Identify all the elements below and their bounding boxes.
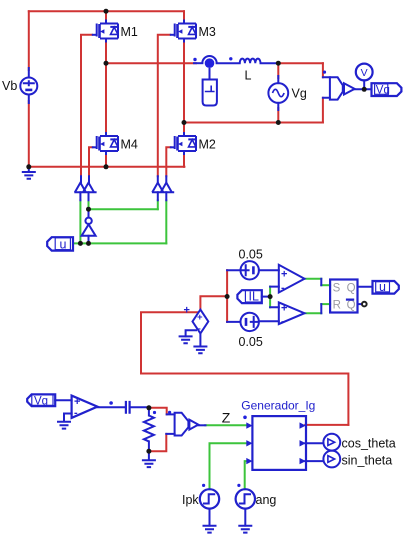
svg-text:+: + xyxy=(74,396,80,408)
wire S input stub xyxy=(321,284,330,286)
mosfet M1 xyxy=(92,20,118,43)
wire u to gating block 1 xyxy=(79,200,81,243)
node Vg bottom / rail xyxy=(276,120,281,125)
gating block G1 (M1 gate) xyxy=(75,183,86,193)
output label u xyxy=(373,281,399,294)
wire Generador output 1 stub xyxy=(305,424,348,426)
node NOT output xyxy=(86,207,91,212)
mosfet M2 xyxy=(170,132,196,155)
voltage sensor (output) xyxy=(330,77,343,99)
wire Vg source bottom lead xyxy=(277,108,279,123)
wire derivator amp output xyxy=(198,424,205,426)
svg-text:Vg: Vg xyxy=(376,85,390,97)
ground below ang xyxy=(238,526,252,533)
node A xyxy=(104,61,109,66)
wire derivator top node to sensor2 plus xyxy=(149,408,167,415)
inductor L xyxy=(240,59,261,64)
ac source Vg xyxy=(268,83,288,103)
wire u to gating block 4 riser xyxy=(165,200,167,243)
wire op-amp minus to ground xyxy=(64,414,72,422)
wire M3 gate line xyxy=(158,35,170,177)
wire node A to current sensor xyxy=(106,62,196,64)
gating block G2 (M4 gate) xyxy=(83,183,94,193)
wire comparator middle input stubs xyxy=(270,287,279,308)
input label u xyxy=(47,237,73,250)
svg-text:R: R xyxy=(333,300,341,312)
wire comparator1 output xyxy=(305,278,322,280)
wire NOT output to gating block 3 riser xyxy=(157,200,159,209)
svg-text:Vg: Vg xyxy=(34,395,48,407)
svg-text:-: - xyxy=(74,407,78,419)
wire ang to Generador input 3 xyxy=(245,461,248,489)
step source ang xyxy=(236,489,255,508)
subcircuit Generador_Ig box xyxy=(252,416,306,470)
svg-text:Q: Q xyxy=(347,283,356,295)
wire NOT gate input stub xyxy=(88,236,90,244)
svg-text:M3: M3 xyxy=(199,25,216,39)
svg-text:Vg: Vg xyxy=(292,87,307,101)
svg-text:Vb: Vb xyxy=(2,79,17,93)
node B xyxy=(182,120,187,125)
wire M2 source to bottom rail xyxy=(183,154,185,167)
svg-text:cos_theta: cos_theta xyxy=(342,436,396,450)
wire M1 drain xyxy=(105,11,107,22)
wire M2 gate line xyxy=(166,147,170,176)
mosfet M4 xyxy=(92,132,118,155)
wire M4 gate line xyxy=(89,147,93,176)
amp triangle after voltage sensor xyxy=(344,83,355,94)
current sensor (arc + dot + body) xyxy=(202,56,217,105)
wire output loop bottom right riser xyxy=(322,98,324,123)
resistor xyxy=(144,416,154,442)
wire Vg source stubs xyxy=(277,76,279,110)
wire sensor2 input prongs xyxy=(166,414,174,434)
wire gating stubs below xyxy=(80,192,166,200)
svg-text:+: + xyxy=(281,303,287,315)
probe cos_theta xyxy=(323,434,340,451)
wire resistor ground stem xyxy=(148,451,150,460)
voltmeter V xyxy=(356,64,373,81)
wire resistor bottom node to sensor2 minus xyxy=(149,434,166,451)
wire op-amp output to capacitor xyxy=(97,406,125,408)
wire sensor1 amp output xyxy=(355,88,372,90)
wire diamond minus input to ground xyxy=(186,330,196,336)
wire resistor bottom lead xyxy=(148,441,150,451)
dc source 0.05 upper xyxy=(241,261,259,279)
wire M4 source to bottom rail xyxy=(105,154,107,167)
svg-text:M4: M4 xyxy=(121,138,138,152)
wire Ipk ground stem xyxy=(209,509,211,526)
wire u label line xyxy=(73,242,166,244)
wire inductor to node xyxy=(261,62,278,64)
wire source2 leads xyxy=(227,320,279,323)
wire hysteresis source chain vertical xyxy=(226,270,228,322)
input label Vg (bottom left) xyxy=(27,394,55,406)
wire comparator output elbows to flipflop xyxy=(320,279,322,314)
svg-text:+: + xyxy=(281,269,287,281)
SR flip-flop xyxy=(330,280,357,313)
wire flipflop Qbar stub xyxy=(358,303,362,305)
svg-text:u: u xyxy=(379,280,386,294)
svg-text:0.05: 0.05 xyxy=(239,335,263,349)
svg-text:M1: M1 xyxy=(121,25,138,39)
wire resistor top lead xyxy=(148,408,150,416)
wire current sensor to inductor xyxy=(217,62,240,64)
svg-text:sin_theta: sin_theta xyxy=(342,454,393,468)
wire sensor top drop xyxy=(322,63,324,77)
wire Generador outputs to probes xyxy=(305,443,323,461)
wire Vg input label to op-amp xyxy=(55,399,71,401)
node hysteresis center xyxy=(225,294,230,299)
svg-text:Z: Z xyxy=(222,410,231,426)
wire NOT output cross to right pair xyxy=(89,208,158,210)
ground at diamond bottom xyxy=(193,347,207,354)
wire voltmeter stem xyxy=(363,80,365,89)
amp triangle after sensor 2 xyxy=(189,420,198,430)
node inductor / Vg top xyxy=(276,61,281,66)
wire M3 drain xyxy=(183,11,185,22)
wire inductor output to sensor top xyxy=(278,62,323,64)
wire Vb top stub xyxy=(28,68,30,78)
svg-text:V: V xyxy=(361,67,368,79)
ground below op-amp xyxy=(57,422,71,429)
wire Vb ground stem xyxy=(28,167,30,172)
output label Vg xyxy=(372,83,402,96)
Qbar open terminal xyxy=(362,302,367,307)
wire diamond comparator top to hysteresis node xyxy=(200,296,227,309)
wire NOT gate output stub xyxy=(88,209,90,217)
svg-text:L: L xyxy=(245,69,252,83)
svg-text:Q: Q xyxy=(347,300,356,312)
svg-text:u: u xyxy=(60,237,67,251)
svg-text:Generador_Ig: Generador_Ig xyxy=(241,399,315,413)
gating block G3 (M3 gate) xyxy=(152,183,163,193)
svg-text:M2: M2 xyxy=(199,138,216,152)
NOT gate xyxy=(82,218,96,236)
svg-text:-: - xyxy=(198,324,201,335)
input arrows of Generador_Ig xyxy=(246,422,305,464)
wire gating stubs above xyxy=(81,176,166,182)
mosfet M3 xyxy=(170,20,196,43)
wire comparator middle inputs vertical xyxy=(269,287,271,308)
node derivator top xyxy=(146,405,151,410)
node top rail / M1 drain xyxy=(104,9,109,14)
diamond comparator xyxy=(193,310,209,334)
ground below Ipk xyxy=(203,526,217,533)
ground below Vb xyxy=(22,172,36,179)
node resistor bottom xyxy=(146,449,151,454)
wire node B to output loop bottom xyxy=(184,122,323,124)
wire right leg M3 source to M2 drain (node B) xyxy=(183,41,185,134)
wire R input stub xyxy=(321,303,330,305)
gating block G4 (M2 gate) xyxy=(161,183,172,193)
dc source 0.05 lower xyxy=(241,313,259,331)
svg-text:IL: IL xyxy=(249,290,259,304)
wire Vb bottom stub xyxy=(28,95,30,104)
wire flipflop Q to u label xyxy=(358,286,373,288)
wire NOT output to gating block 2 xyxy=(88,200,90,209)
wire derivator output to Generador input 1 xyxy=(205,424,248,426)
wire comparator2 output xyxy=(305,312,322,314)
wire left leg M1 source to M4 drain (node A) xyxy=(105,41,107,134)
probe sin_theta xyxy=(323,451,340,468)
wire M1 gate line xyxy=(81,35,92,177)
wire node A into current sensor xyxy=(194,62,202,64)
node u to NOT input xyxy=(86,241,91,246)
wire bottom rail xyxy=(29,166,185,168)
wire source1 leads xyxy=(227,269,279,271)
svg-text:ang: ang xyxy=(256,493,277,507)
wire diamond bottom to ground xyxy=(199,333,201,346)
svg-text:-: - xyxy=(281,282,285,294)
node voltmeter tap xyxy=(362,87,367,92)
svg-text:0.05: 0.05 xyxy=(239,247,263,261)
wire Vb positive lead up xyxy=(28,11,30,70)
gating block base bars xyxy=(74,191,174,193)
svg-text:-: - xyxy=(281,316,285,328)
wire Vb negative lead down to bottom rail xyxy=(28,101,30,167)
comparator U1 (upper) xyxy=(279,265,305,293)
step source Ipk xyxy=(200,489,219,508)
node u to G1 xyxy=(78,241,83,246)
node M4 source / bottom rail xyxy=(104,164,109,169)
node Vb- / bottom rail xyxy=(26,164,31,169)
wire IL label lead xyxy=(262,296,270,298)
svg-text:+: + xyxy=(197,312,203,323)
node IL tap xyxy=(268,294,273,299)
wire Ipk to Generador input 2 xyxy=(210,443,249,489)
op-amp xyxy=(72,396,98,418)
input label IL xyxy=(237,290,261,303)
wire capacitor to node xyxy=(131,406,149,408)
voltage sensor 2 (derivator) xyxy=(175,413,189,436)
svg-text:+: + xyxy=(184,305,190,317)
svg-text:Ipk: Ipk xyxy=(182,493,199,507)
comparator U2 (lower) xyxy=(279,302,305,324)
wire Vg source top lead xyxy=(277,63,279,78)
wire Ig reference from Generador to comparator + input xyxy=(141,312,348,425)
wire ang ground stem xyxy=(244,509,246,526)
dc source Vb xyxy=(20,78,37,95)
ground below resistor xyxy=(142,460,156,467)
wire sensor1 input prongs xyxy=(323,77,330,98)
ground at diamond minus input xyxy=(179,336,193,343)
svg-text:S: S xyxy=(333,283,341,295)
capacitor xyxy=(126,401,130,414)
wire top rail Vb+ to M1/M3 drains xyxy=(29,10,184,12)
